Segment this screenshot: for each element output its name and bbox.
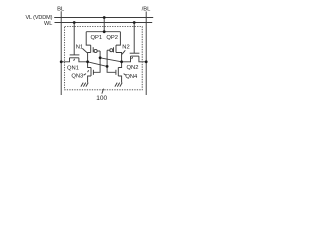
leader line for QN3 label xyxy=(84,74,86,76)
transistor QN3 source arrow tick xyxy=(88,70,89,72)
transistor QN4 channel xyxy=(117,68,119,77)
transistor QN1 gate plate xyxy=(70,54,80,56)
svg-text:BL: BL xyxy=(57,6,65,12)
wire VDD feed vertical xyxy=(103,18,105,32)
transistor QP1 gate plate xyxy=(92,47,94,52)
leader line for label 100 xyxy=(102,89,104,94)
svg-text:/BL: /BL xyxy=(142,7,151,13)
transistor QP1 source lead xyxy=(86,32,91,45)
left inverter gate line (QP1+QN3 gates) xyxy=(93,51,100,72)
svg-text:QN1: QN1 xyxy=(67,65,79,71)
right inverter gate line (QP2+QN4 gates) xyxy=(107,50,115,72)
svg-text:100: 100 xyxy=(96,95,107,102)
node N1 dot xyxy=(86,60,89,63)
svg-text:QP1: QP1 xyxy=(90,35,102,41)
junction dot rail feed xyxy=(103,30,106,33)
transistor QN1 source lead to BL xyxy=(61,58,69,62)
transistor QN3 source lead to ground xyxy=(88,76,91,83)
junction dot /BL to QN2 xyxy=(145,60,148,63)
node N2 dot xyxy=(120,60,123,63)
svg-text:WL: WL xyxy=(44,21,52,27)
transistor QN2 channel xyxy=(131,55,139,57)
junction dot right gate node xyxy=(106,65,109,68)
svg-text:N1: N1 xyxy=(76,44,83,50)
cross-coupling wire from left gate node to N2 xyxy=(100,58,122,62)
transistor QP2 gate plate xyxy=(113,47,115,52)
svg-text:QN2: QN2 xyxy=(127,65,139,71)
transistor QP2 gate lead xyxy=(107,49,110,51)
transistor QN2 gate plate xyxy=(130,52,140,54)
transistor QP2 source lead xyxy=(116,32,120,45)
transistor QP1 PMOS bubble xyxy=(94,49,97,52)
transistor QN1 gate lead from WL xyxy=(73,23,75,55)
leader line for N2 label xyxy=(122,50,125,54)
svg-text:QN4: QN4 xyxy=(125,74,138,80)
transistor QN1 source arrow tick xyxy=(74,59,75,61)
transistor QP2 drain lead to N2 xyxy=(116,53,122,62)
ground symbol right xyxy=(115,83,122,87)
wire /BL vertical xyxy=(145,12,147,96)
svg-text:N2: N2 xyxy=(122,44,129,50)
transistor QP2 PMOS bubble xyxy=(110,49,113,52)
junction dot WL to QN1 gate xyxy=(73,21,76,24)
transistor QN2 lead to /BL xyxy=(139,56,146,62)
cell boundary dashed box xyxy=(65,27,143,90)
wire VDD rail inside cell xyxy=(86,31,120,33)
transistor QN2 gate lead from WL xyxy=(133,23,135,54)
transistor QN4 gate plate xyxy=(115,70,117,75)
junction dot VL feed xyxy=(103,16,106,19)
transistor QN4 source lead to ground xyxy=(118,76,121,83)
wire N1 down to QN3 xyxy=(88,62,91,68)
junction dot BL to QN1 xyxy=(60,60,63,63)
junction dot WL to QN2 gate xyxy=(133,21,136,24)
transistor QP2 channel xyxy=(115,45,117,52)
transistor QN3 channel xyxy=(90,68,92,77)
svg-text:QN3: QN3 xyxy=(71,74,83,80)
svg-text:QP2: QP2 xyxy=(106,35,118,41)
transistor QP1 gate lead xyxy=(97,50,100,52)
cross-coupling wire from N1 to right gate node xyxy=(88,62,108,67)
ground symbol left xyxy=(81,83,88,87)
leader line for QN4 label xyxy=(124,74,126,76)
transistor QN2 lead to N2 xyxy=(122,56,131,62)
leader line for N1 label xyxy=(83,49,88,53)
junction dot left gate node xyxy=(99,56,102,59)
transistor QP1 drain lead to N1 xyxy=(88,53,91,62)
wire WL horizontal xyxy=(55,22,153,24)
wire N2 down to QN4 xyxy=(118,62,121,68)
transistor QP1 channel xyxy=(90,45,92,52)
transistor QN1 channel xyxy=(70,57,79,59)
transistor QN1 drain lead to N1 xyxy=(79,58,88,62)
transistor QN3 gate plate xyxy=(92,70,94,75)
wire VL (VDDM) horizontal xyxy=(54,17,153,19)
wire BL vertical xyxy=(60,11,62,95)
transistor QN2 source arrow tick xyxy=(132,57,133,59)
